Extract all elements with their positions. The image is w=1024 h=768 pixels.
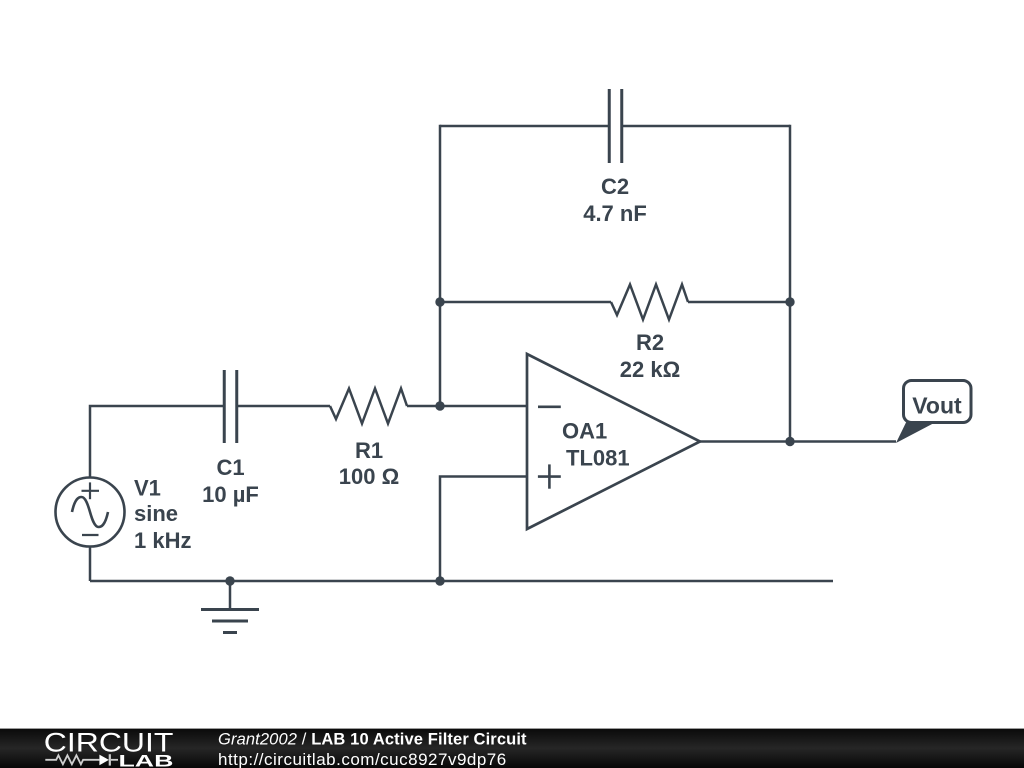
capacitor C2 — [609, 89, 622, 163]
svg-text:10 µF: 10 µF — [202, 482, 259, 507]
logo diode triangle — [99, 755, 109, 766]
wire top to C2 left plate — [440, 125, 609, 128]
voltage source V1 circle — [56, 478, 125, 547]
wire V1 bottom — [89, 547, 92, 581]
node junction R2 left — [435, 297, 444, 306]
svg-text:C1: C1 — [216, 455, 244, 480]
svg-text:TL081: TL081 — [566, 446, 630, 471]
wire op-amp plus input — [440, 477, 527, 582]
wire feedback right vertical — [789, 125, 792, 442]
V1 sine wave — [72, 497, 108, 527]
node junction at R1 / op-amp input — [435, 401, 444, 410]
op-amp plus input symbol — [538, 464, 561, 488]
node junction output — [785, 437, 794, 446]
wire R2 left lead — [440, 301, 611, 304]
svg-text:R2: R2 — [636, 330, 664, 355]
svg-text:1 kHz: 1 kHz — [134, 528, 191, 553]
wire R1 to op-amp minus input — [407, 405, 527, 408]
node junction plus input to ground rail — [435, 576, 444, 585]
node junction R2 right — [785, 297, 794, 306]
svg-text:100 Ω: 100 Ω — [339, 464, 399, 489]
V1 minus sign — [82, 534, 99, 536]
node junction ground stub — [225, 576, 234, 585]
svg-text:sine: sine — [134, 501, 178, 526]
capacitor C1 — [224, 370, 237, 443]
ground — [201, 581, 259, 633]
node flag Vout pointer — [896, 423, 935, 444]
svg-text:Grant2002 / LAB 10 Active Filt: Grant2002 / LAB 10 Active Filter Circuit — [218, 731, 527, 749]
svg-text:R1: R1 — [355, 438, 383, 463]
V1 plus sign — [82, 482, 100, 499]
svg-text:C2: C2 — [601, 174, 629, 199]
wire C1 to R1 — [237, 405, 330, 408]
svg-text:OA1: OA1 — [562, 419, 607, 444]
wire ground rail — [90, 580, 833, 583]
op-amp OA1 triangle — [527, 354, 700, 529]
svg-text:LAB: LAB — [119, 751, 174, 768]
wire C2 right plate to right vertical — [622, 125, 790, 128]
resistor R2 — [611, 285, 688, 320]
resistor R1 — [330, 389, 407, 424]
svg-text:Vout: Vout — [912, 393, 962, 419]
logo resistor-diode symbol — [45, 754, 118, 765]
wire output — [700, 440, 896, 443]
op-amp minus input symbol — [538, 405, 561, 408]
footer bar — [0, 729, 1024, 768]
svg-text:4.7 nF: 4.7 nF — [583, 201, 647, 226]
svg-text:http://circuitlab.com/cuc8927v: http://circuitlab.com/cuc8927v9dp76 — [218, 750, 507, 768]
wire feedback left vertical — [439, 125, 442, 406]
svg-text:22 kΩ: 22 kΩ — [620, 357, 680, 382]
wire R2 right lead — [688, 301, 790, 304]
node flag Vout box — [904, 381, 972, 423]
wire input top-left from V1 to C1 — [90, 406, 225, 477]
svg-text:V1: V1 — [134, 476, 161, 501]
